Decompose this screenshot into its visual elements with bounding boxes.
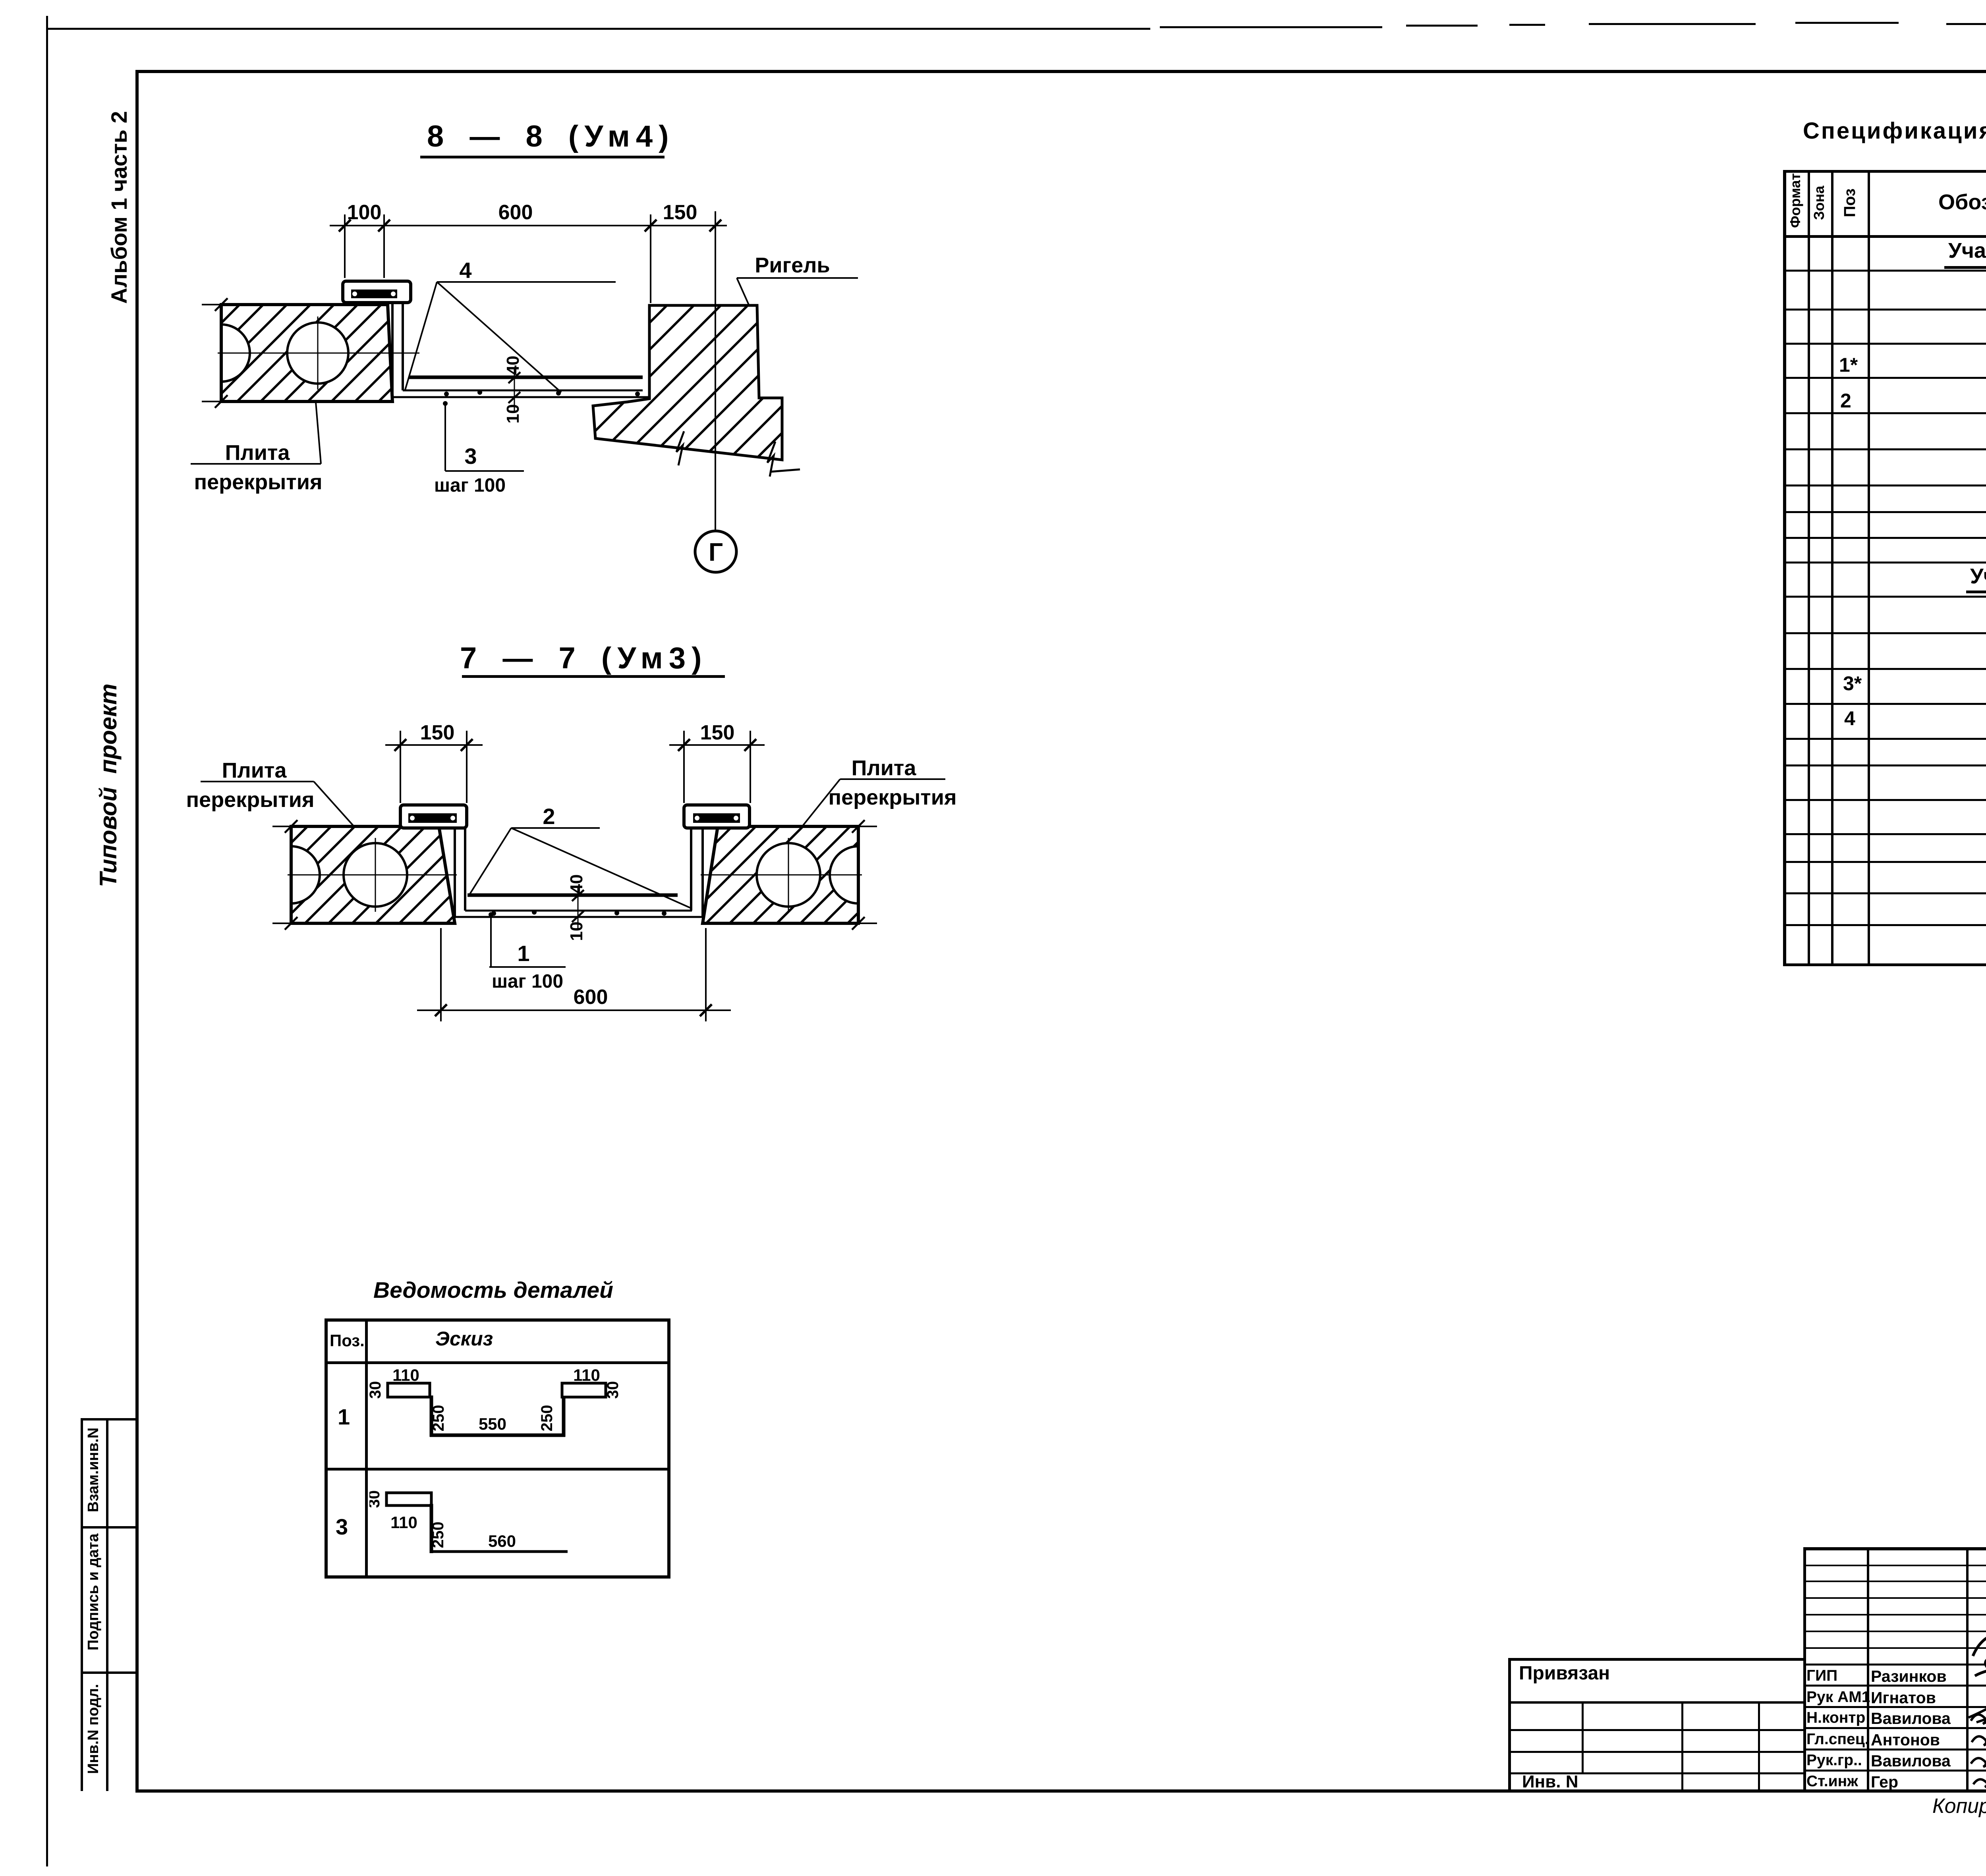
dim 150 right bbox=[669, 744, 765, 746]
left formwork plate bbox=[400, 805, 467, 828]
svg-text:перекрытия: перекрытия bbox=[829, 786, 957, 809]
inner frame bottom bbox=[135, 1789, 1986, 1793]
vedomost table frame bbox=[325, 1318, 670, 1322]
callout 1 bbox=[490, 913, 492, 967]
svg-text:шаг 100: шаг 100 bbox=[492, 971, 563, 992]
slab thickness ticks right bbox=[857, 826, 877, 827]
svg-text:550: 550 bbox=[479, 1415, 506, 1433]
rebar dots bbox=[491, 911, 496, 916]
slab thickness ticks left bbox=[272, 826, 293, 827]
spec table title bbox=[1803, 118, 1986, 144]
svg-text:3: 3 bbox=[464, 444, 477, 469]
margin note: Типовой проект (rotated) bbox=[95, 683, 122, 887]
spec table grid bbox=[1783, 170, 1986, 173]
vedomost headers bbox=[330, 1331, 365, 1350]
svg-text:2: 2 bbox=[543, 804, 555, 829]
section 7-7 title bbox=[460, 641, 707, 676]
section 8-8 drawing bbox=[183, 167, 866, 588]
inner frame top bbox=[135, 70, 1986, 73]
svg-text:110: 110 bbox=[573, 1366, 600, 1384]
sketch pos1 U-bar bbox=[388, 1383, 430, 1397]
svg-text:250: 250 bbox=[429, 1522, 447, 1548]
trough bottom lines bbox=[468, 894, 678, 897]
title block: privyazan box bbox=[1508, 1658, 1803, 1661]
svg-text:4: 4 bbox=[459, 258, 471, 283]
svg-text:150: 150 bbox=[663, 201, 697, 224]
vertical dims 40 10 bbox=[578, 888, 579, 929]
inner frame left bbox=[135, 70, 139, 1793]
svg-text:10: 10 bbox=[503, 404, 523, 424]
svg-text:перекрытия: перекрытия bbox=[186, 788, 315, 812]
svg-text:шаг 100: шаг 100 bbox=[434, 475, 506, 496]
right cut half void bbox=[830, 846, 858, 903]
formwork top plate bbox=[343, 281, 411, 303]
svg-text:600: 600 bbox=[498, 201, 533, 224]
dim 150 left bbox=[385, 744, 483, 746]
svg-text:250: 250 bbox=[430, 1405, 447, 1432]
stamp labels rotated bbox=[85, 1428, 102, 1512]
right floor slab hatched bbox=[703, 826, 858, 923]
svg-text:150: 150 bbox=[420, 721, 455, 744]
svg-text:30: 30 bbox=[369, 1490, 383, 1508]
trough sheet verticals bbox=[454, 828, 456, 917]
svg-text:Г: Г bbox=[709, 538, 723, 566]
slab thickness ticks bbox=[202, 304, 222, 305]
svg-text:100: 100 bbox=[347, 201, 382, 224]
callout 3 bbox=[444, 401, 446, 471]
plate rebar bar bbox=[351, 290, 397, 298]
rebar dots bbox=[444, 392, 449, 396]
beam hatched bbox=[593, 305, 782, 460]
dimension line bbox=[330, 225, 727, 226]
svg-text:30: 30 bbox=[604, 1381, 622, 1399]
svg-text:Плита: Плита bbox=[225, 441, 290, 465]
svg-text:1: 1 bbox=[517, 941, 529, 966]
svg-text:Плита: Плита bbox=[222, 759, 287, 782]
svg-text:150: 150 bbox=[700, 721, 735, 744]
margin note: Альбом 1 часть 2 (rotated) bbox=[106, 111, 132, 304]
formwork sheet verticals bbox=[391, 303, 394, 397]
below frame texts bbox=[1932, 1794, 1986, 1818]
outer scan border top bbox=[46, 28, 1150, 30]
right void circle bbox=[757, 843, 820, 907]
floor slab hatched bbox=[221, 305, 392, 401]
svg-text:560: 560 bbox=[488, 1532, 516, 1550]
left floor slab hatched bbox=[291, 826, 455, 923]
dim 600 bbox=[440, 928, 442, 1021]
svg-text:40: 40 bbox=[503, 356, 523, 375]
svg-text:10: 10 bbox=[567, 922, 586, 941]
svg-text:Ригель: Ригель bbox=[755, 253, 830, 277]
svg-text:110: 110 bbox=[390, 1513, 417, 1532]
title block: signature table bbox=[1803, 1547, 1986, 1550]
sketch pos3 L-bar bbox=[386, 1493, 431, 1505]
outer scan border left bbox=[46, 16, 48, 1866]
svg-text:600: 600 bbox=[574, 986, 608, 1009]
slab edges redrawn bbox=[290, 826, 293, 923]
slab void circle bbox=[287, 322, 348, 384]
axis circle bbox=[695, 531, 736, 572]
section 8-8 title bbox=[427, 119, 674, 154]
left cut half void bbox=[291, 846, 320, 903]
slab left edge bbox=[220, 305, 223, 401]
left stamp column table bbox=[81, 1418, 83, 1791]
svg-text:40: 40 bbox=[567, 874, 586, 894]
beam break tail bbox=[770, 469, 800, 472]
void centerlines bbox=[218, 353, 419, 354]
void centerlines bbox=[288, 874, 457, 876]
vedomost sketches bbox=[369, 1364, 639, 1575]
svg-text:250: 250 bbox=[538, 1405, 556, 1432]
axis line bbox=[715, 211, 716, 531]
vedomost title bbox=[373, 1277, 613, 1303]
left void circle bbox=[344, 843, 407, 907]
spec table rows bbox=[1948, 238, 1986, 263]
right formwork plate bbox=[684, 805, 750, 828]
vertical dims 40 10 bbox=[514, 369, 515, 413]
svg-text:перекрытия: перекрытия bbox=[194, 470, 323, 494]
svg-text:Плита: Плита bbox=[852, 756, 917, 780]
section 7-7 drawing bbox=[179, 707, 993, 1056]
svg-text:30: 30 bbox=[369, 1381, 384, 1399]
signatures bbox=[1967, 1622, 1986, 1791]
spec header labels bbox=[1787, 173, 1804, 228]
slab cut void half-circle bbox=[221, 324, 250, 382]
trough bottom lines bbox=[409, 376, 643, 379]
svg-text:110: 110 bbox=[392, 1366, 419, 1384]
